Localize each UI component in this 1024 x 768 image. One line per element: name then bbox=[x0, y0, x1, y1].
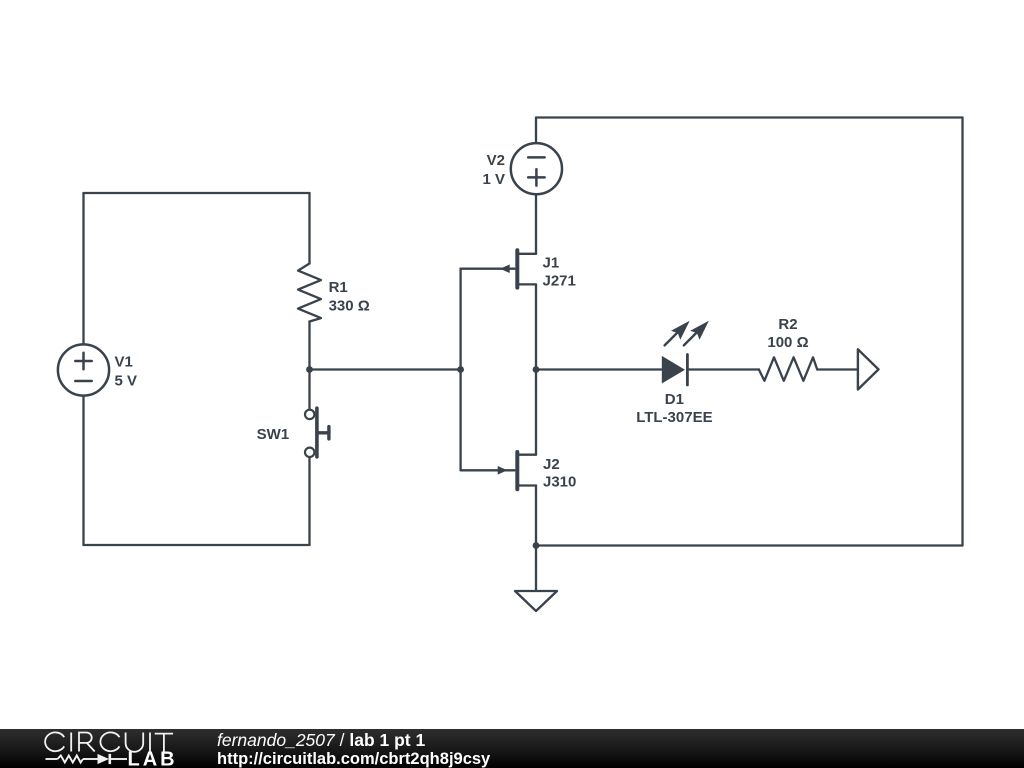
logo letter I bbox=[70, 733, 72, 752]
logo letter T bbox=[155, 734, 173, 752]
transistor J2 (N-channel JFET J310) bbox=[461, 452, 577, 490]
LED D1 (LTL-307EE) bbox=[636, 321, 712, 426]
logo resistor zigzag bbox=[58, 756, 84, 763]
svg-text:LAB: LAB bbox=[128, 749, 178, 768]
svg-text:R2: R2 bbox=[778, 316, 797, 333]
wire: V1 bottom to bottom-left corner bbox=[82, 396, 84, 545]
wire: R1 to node A bbox=[308, 322, 310, 370]
wire: box bottom edge bbox=[536, 544, 963, 546]
wire: V2 top to box top edge bbox=[535, 118, 537, 144]
CircuitLab logo bbox=[0, 729, 190, 768]
transistor J1 (P-channel JFET J271) bbox=[461, 250, 576, 289]
wire: left loop top edge bbox=[84, 192, 310, 194]
wire: box right edge bbox=[961, 118, 963, 546]
logo diode bbox=[98, 754, 110, 764]
svg-text:5 V: 5 V bbox=[115, 373, 138, 390]
output terminal flag bbox=[858, 349, 879, 389]
logo letter U bbox=[126, 733, 144, 752]
logo letter C bbox=[100, 732, 119, 751]
svg-text:SW1: SW1 bbox=[257, 426, 290, 443]
logo resistor-diode wire bbox=[46, 758, 58, 760]
wire: node A down to SW1 bbox=[308, 370, 310, 410]
wire: node A to gate node B bbox=[310, 368, 461, 370]
logo letter I bbox=[149, 733, 151, 752]
wire: V2 bottom to J1 drain bbox=[535, 194, 537, 254]
logo letter C bbox=[45, 732, 64, 751]
wire: D1 cathode to R2 bbox=[689, 368, 759, 370]
wire: gate bus (J1 gate to J2 gate) bbox=[459, 269, 461, 471]
wire: J1 source to J2 drain (trunk) bbox=[535, 284, 537, 454]
logo wire to diode bbox=[83, 758, 98, 760]
svg-text:V2: V2 bbox=[487, 152, 505, 169]
wire: SW1 bottom to loop bottom bbox=[308, 457, 310, 545]
footer title text bbox=[217, 730, 425, 751]
svg-text:330 Ω: 330 Ω bbox=[329, 297, 370, 314]
logo wire after diode bbox=[111, 758, 127, 760]
svg-text:V1: V1 bbox=[115, 354, 133, 371]
wire: top-right corner down to R1 bbox=[308, 193, 310, 264]
node D (ground junction) bbox=[533, 542, 540, 549]
svg-text:J271: J271 bbox=[543, 273, 576, 290]
wire: box top edge bbox=[536, 116, 963, 118]
footer url text bbox=[217, 750, 490, 768]
node C (output rail junction) bbox=[533, 366, 540, 373]
voltage source V1 bbox=[58, 344, 137, 395]
ground bbox=[515, 546, 557, 612]
svg-text:R1: R1 bbox=[329, 279, 348, 296]
wire: left loop left side top (V1 top to top-left corner) bbox=[82, 193, 84, 345]
logo letter R bbox=[79, 733, 95, 752]
voltage source V2 bbox=[482, 143, 562, 194]
svg-text:1 V: 1 V bbox=[482, 171, 505, 188]
svg-text:J2: J2 bbox=[543, 456, 560, 473]
footer bar bbox=[0, 729, 1024, 768]
svg-text:J1: J1 bbox=[543, 254, 560, 271]
svg-text:LTL-307EE: LTL-307EE bbox=[636, 409, 712, 426]
node B (gate bus junction) bbox=[457, 366, 464, 373]
wire: R2 to output terminal bbox=[817, 368, 858, 370]
resistor R1 bbox=[298, 264, 370, 322]
wire: left loop bottom edge bbox=[84, 544, 310, 546]
svg-text:D1: D1 bbox=[665, 391, 684, 408]
switch SW1 (pushbutton) bbox=[257, 408, 329, 457]
node A (R1 / SW1 / gate-rail junction) bbox=[306, 366, 313, 373]
svg-text:J310: J310 bbox=[543, 473, 576, 490]
resistor R2 bbox=[759, 316, 817, 381]
wire: node C to LED D1 anode bbox=[536, 368, 662, 370]
svg-text:100 Ω: 100 Ω bbox=[767, 334, 808, 351]
wire: J2 source down to ground node bbox=[535, 486, 537, 546]
